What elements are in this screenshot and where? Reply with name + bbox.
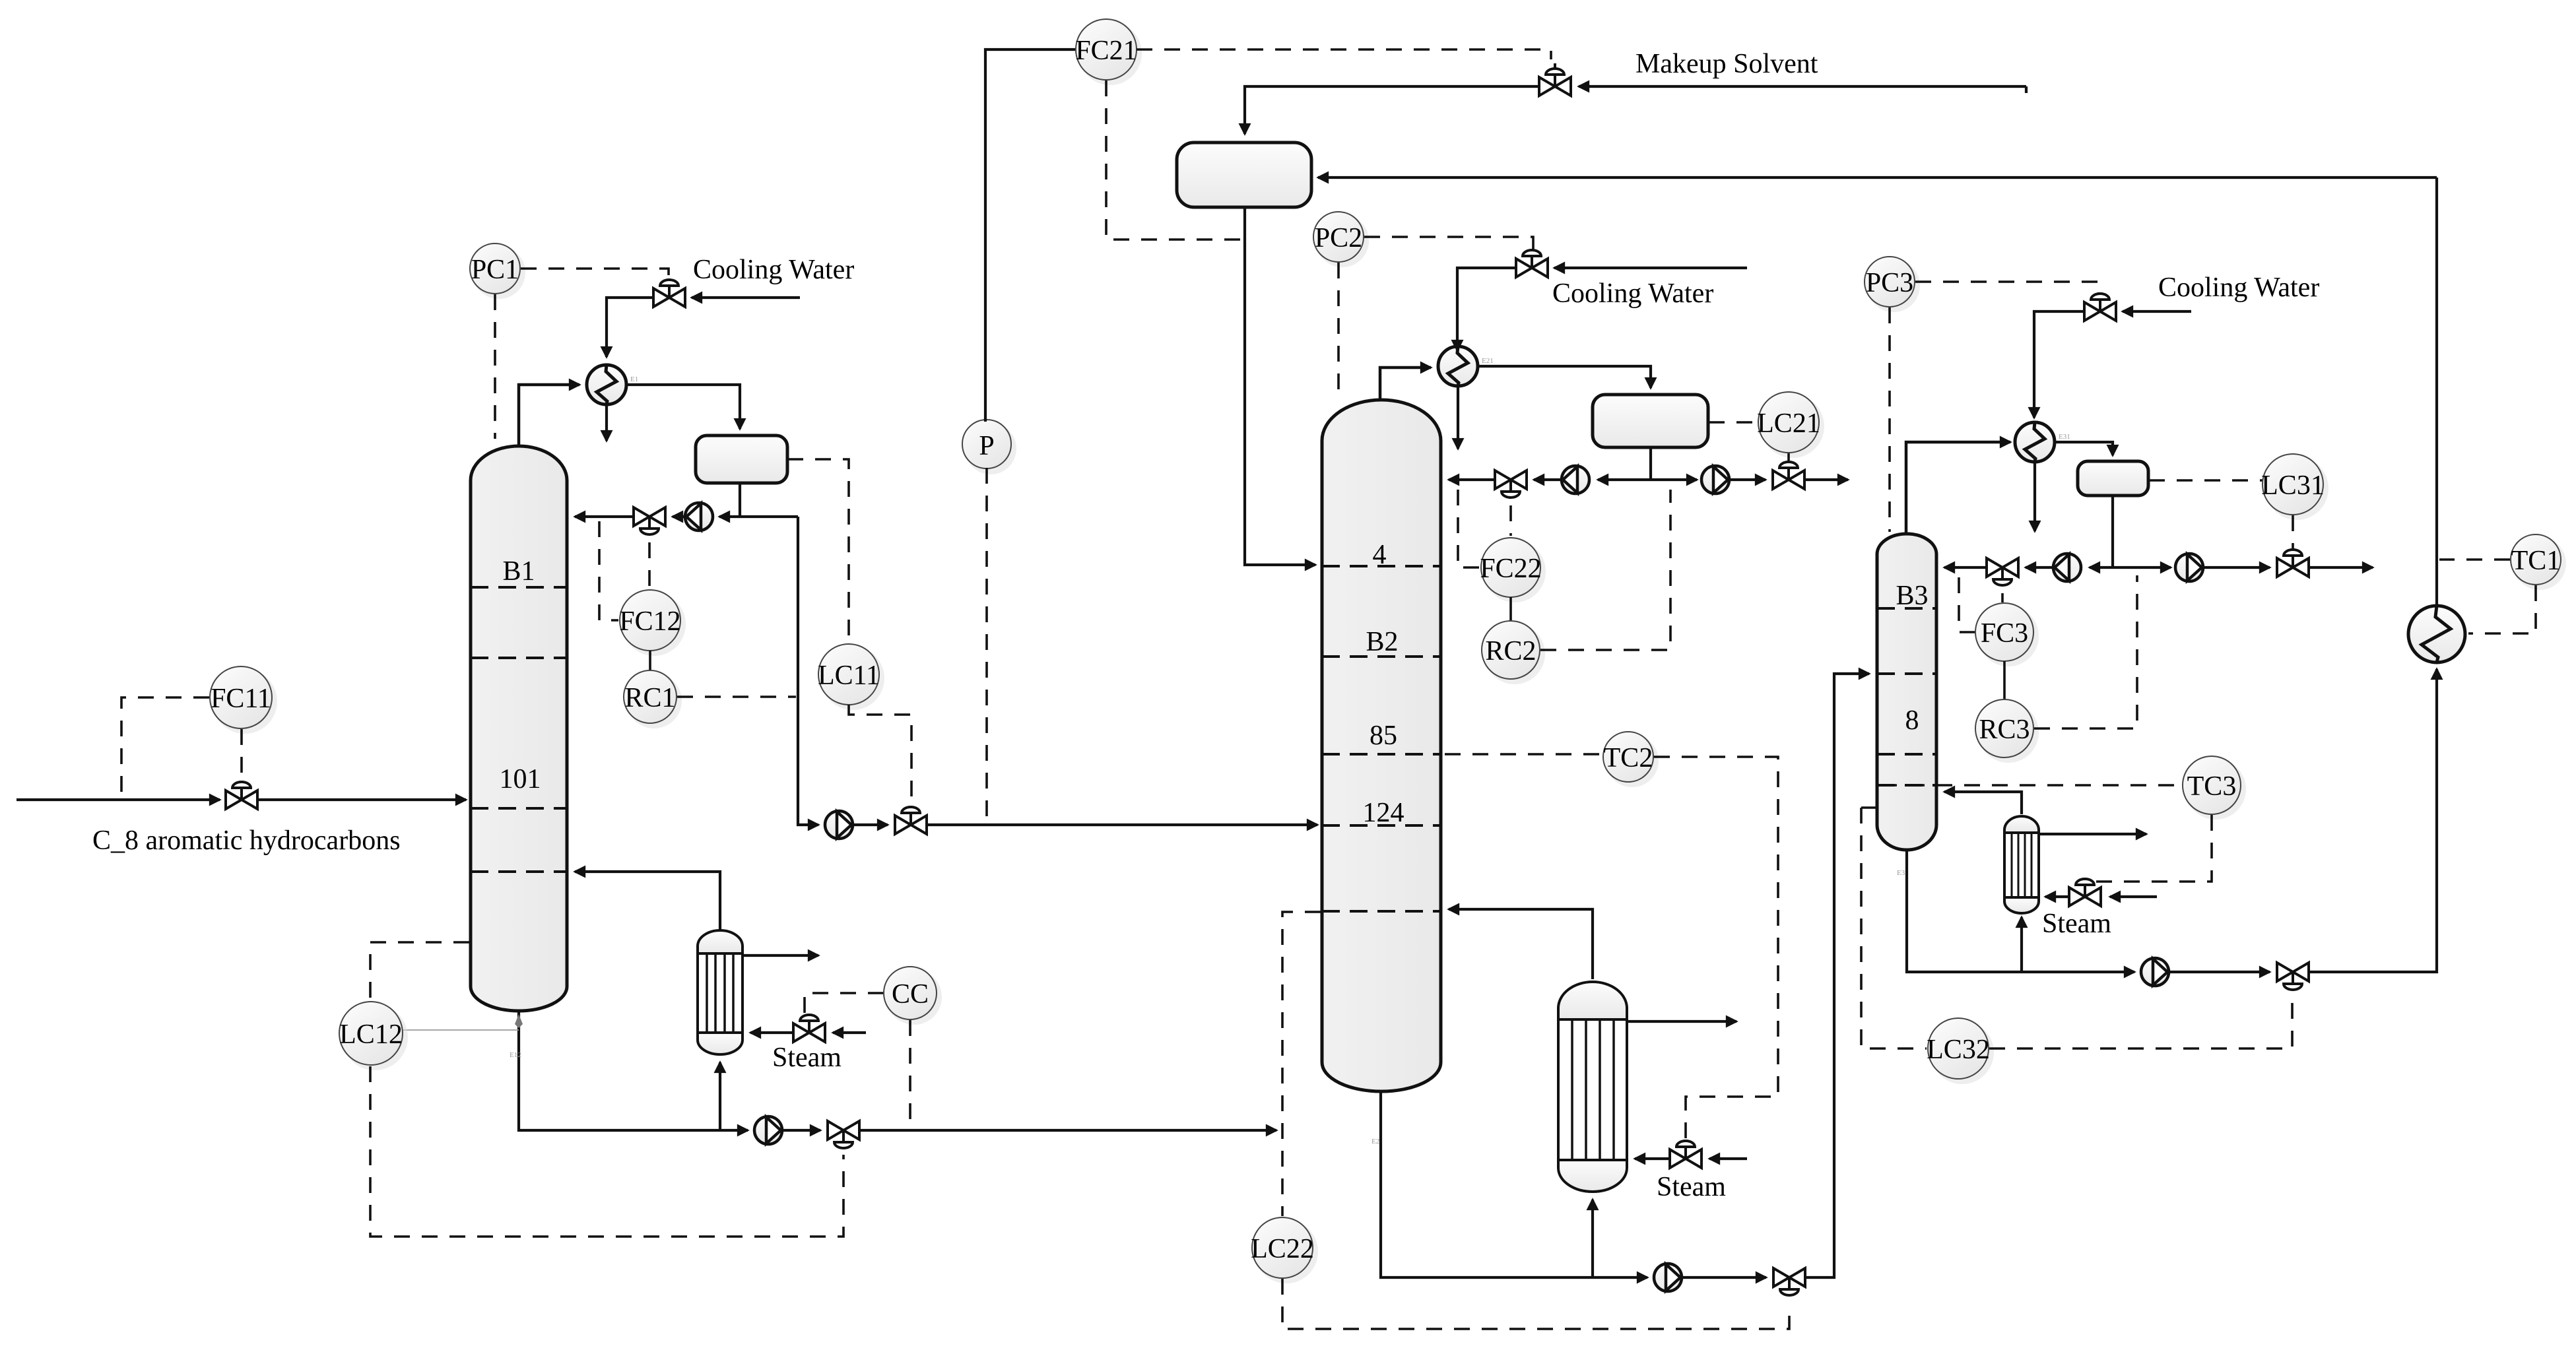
svg-text:RC1: RC1 xyxy=(624,683,675,713)
controller TC1 xyxy=(2513,537,2566,590)
tray line B3-4 xyxy=(1877,784,1936,787)
controller P xyxy=(965,423,1016,474)
wire LC32 column tap xyxy=(1861,806,1878,809)
svg-text:B3: B3 xyxy=(1896,581,1928,611)
reflux drum D1 xyxy=(696,435,787,483)
controller TC2 xyxy=(1606,734,1659,787)
wire condenser 1 to reflux drum xyxy=(627,385,740,429)
wire dashed LC32 tap down xyxy=(1861,808,1927,1048)
wire dashed LC21 to valve xyxy=(1787,453,1790,465)
wire dashed reflux FT tap to FC12 xyxy=(599,521,618,620)
wire reboiler 3 vapor return xyxy=(1944,792,2022,814)
tray line B3-2 (feed) xyxy=(1877,672,1936,675)
pump P1 reflux xyxy=(685,503,713,531)
wire dashed TC2 tap xyxy=(1445,753,1602,756)
wire cooling water to condenser 2 xyxy=(1457,268,1515,350)
condenser E1 xyxy=(587,365,638,404)
wire drum D3 outlet xyxy=(2111,496,2114,567)
reboiler E22 xyxy=(1558,982,1627,1192)
wire condenser 3 to reflux drum 3 xyxy=(2055,442,2113,455)
wire pump P5 to valve LC21 xyxy=(1729,478,1766,481)
svg-text:Steam: Steam xyxy=(772,1043,842,1073)
wire cooling water supply 3 xyxy=(2123,310,2191,313)
wire dashed LC22 column tap xyxy=(1282,912,1321,1216)
wire pump P1 to valve xyxy=(673,515,685,518)
wire dashed LC32 to bottoms valve 3 xyxy=(1989,999,2292,1048)
wire dashed PC1 to CW valve xyxy=(521,269,669,281)
valve cooling water 3 (PC3) xyxy=(2084,294,2116,321)
controller LC32 xyxy=(1931,1021,1994,1084)
wire pump P8 to valve LC31 xyxy=(2203,566,2270,569)
wire dashed CC to bottoms line xyxy=(909,1020,911,1128)
wire dashed FC11 tap xyxy=(121,697,209,796)
svg-text:P: P xyxy=(979,431,994,461)
wire reflux 3 to pump xyxy=(2090,566,2113,569)
pump P6 bottoms 2 xyxy=(1654,1264,1682,1291)
valve distillate 1 (LC11) xyxy=(895,807,927,834)
svg-text:Makeup Solvent: Makeup Solvent xyxy=(1635,49,1818,79)
tray line B2-2 xyxy=(1322,655,1441,658)
wire drum D2 outlet xyxy=(1649,447,1652,480)
wire condenser 1 vent arrow xyxy=(605,405,608,441)
svg-text:LC11: LC11 xyxy=(818,661,880,691)
wire pump P6 to valve xyxy=(1682,1276,1766,1279)
wire reboiler 2 feed branch xyxy=(1591,1200,1594,1277)
wire dashed TC3 tap xyxy=(1881,784,2182,787)
wire pump P4 to valve xyxy=(1534,478,1562,481)
svg-text:E1: E1 xyxy=(630,375,638,383)
wire dashed FC21 to drum outlet xyxy=(1106,81,1243,240)
wire drum outlet to B2 xyxy=(1245,207,1315,565)
svg-text:E2: E2 xyxy=(1371,1138,1379,1145)
wire dashed PC2 to CW valve 2 xyxy=(1364,237,1533,251)
pump P5 distillate 2 xyxy=(1701,466,1729,494)
wire bottoms 1 product xyxy=(861,1129,1276,1132)
svg-text:E21: E21 xyxy=(1482,357,1494,365)
svg-text:CC: CC xyxy=(892,979,929,1010)
wire dashed valve to FC3 xyxy=(2001,593,2004,602)
valve reflux 2 (FC22) xyxy=(1495,470,1527,498)
tray line B3-3 xyxy=(1877,753,1936,756)
feed drum vessel xyxy=(1177,143,1311,207)
controller LC22 xyxy=(1255,1220,1318,1283)
B3 SECTION xyxy=(1861,177,2566,1084)
wire dashed valve to FC22 xyxy=(1509,505,1512,536)
svg-text:FC3: FC3 xyxy=(1981,618,2028,649)
reflux drum D2 xyxy=(1593,395,1708,447)
wire steam 2 into reboiler xyxy=(1635,1157,1668,1160)
wire dashed RC3 to reflux junction xyxy=(2034,575,2137,728)
tray line B3-1 xyxy=(1877,607,1936,610)
valve bottoms 1 (LC12) xyxy=(828,1121,859,1148)
wire steam 3 into reboiler xyxy=(2045,895,2068,898)
wire dashed TC2 to steam valve 2 xyxy=(1654,757,1778,1141)
pump P9 bottoms 3 xyxy=(2141,958,2169,986)
wire reboiler 3 product xyxy=(2039,833,2146,835)
pump P4 reflux 2 xyxy=(1562,466,1589,494)
svg-text:FC21: FC21 xyxy=(1075,36,1137,66)
controller LC31 xyxy=(2265,457,2328,520)
valve cooling water 1 xyxy=(653,280,685,307)
wire B3 bottoms to heat exchanger xyxy=(2310,669,2437,972)
svg-text:4: 4 xyxy=(1373,540,1387,570)
controller RC2 xyxy=(1484,624,1545,684)
wire pump P7 to valve xyxy=(2026,566,2053,569)
tray line B2-5 (vapor return) xyxy=(1322,910,1441,913)
wire reflux 2 to pump xyxy=(1598,478,1651,481)
pump P7 reflux 3 xyxy=(2053,554,2081,581)
controller PC3 xyxy=(1867,259,1920,312)
controller CC xyxy=(886,969,942,1025)
wire heat exchanger to recycle line xyxy=(2435,177,2438,606)
svg-text:LC12: LC12 xyxy=(339,1019,403,1050)
svg-text:FC12: FC12 xyxy=(619,606,680,637)
svg-text:Steam: Steam xyxy=(2042,909,2111,939)
tray line B1-2 xyxy=(471,657,567,659)
wire reboiler 1 vapor return xyxy=(575,872,720,932)
controller TC3 xyxy=(2185,759,2246,820)
valve steam 3 (TC3) xyxy=(2069,879,2101,906)
wire condenser 2 vent arrow xyxy=(1457,387,1459,449)
wire distillate to B2 feed xyxy=(928,823,1317,826)
svg-text:8: 8 xyxy=(1905,705,1919,736)
wire dashed RC1 to distillate line xyxy=(677,695,796,698)
wire B2 bottoms riser to B3 xyxy=(1806,674,1869,1277)
tray line B1-4 (vapor return) xyxy=(471,870,567,873)
pump P2 distillate xyxy=(825,811,853,839)
wire column B3 top to condenser xyxy=(1906,442,2010,534)
svg-text:E31: E31 xyxy=(2059,433,2070,441)
tray line B2-1 (4) xyxy=(1322,565,1441,567)
svg-text:TC1: TC1 xyxy=(2511,546,2561,576)
valve steam 2 (TC2) xyxy=(1670,1141,1701,1168)
svg-text:85: 85 xyxy=(1370,721,1397,751)
wire condenser 3 vent arrow xyxy=(2033,463,2036,531)
wire dashed TC1 to heat exchanger xyxy=(2468,585,2536,633)
valve reflux 1 (FC12) xyxy=(634,507,665,534)
svg-text:C_8 aromatic hydrocarbons: C_8 aromatic hydrocarbons xyxy=(92,825,401,856)
valve steam 1 (CC) xyxy=(793,1015,825,1042)
svg-text:101: 101 xyxy=(500,764,541,794)
FEED DRUM SECTION xyxy=(1075,19,2437,565)
wire cooling water to condenser 3 xyxy=(2034,311,2083,418)
controller FC21 xyxy=(1078,22,1142,85)
wire dashed reflux FT tap to FC3 xyxy=(1959,577,1975,632)
tray line B2-4 (124 feed) xyxy=(1322,824,1441,827)
wire B1 bottoms outlet xyxy=(519,1012,748,1130)
svg-text:Cooling Water: Cooling Water xyxy=(693,255,854,285)
svg-text:Steam: Steam xyxy=(1657,1172,1726,1202)
wire column B2 top to condenser xyxy=(1380,368,1431,401)
wire solvent recycle return into drum xyxy=(1318,176,2437,179)
svg-text:RC2: RC2 xyxy=(1485,636,1536,666)
wire FC22 to RC2 xyxy=(1509,597,1512,621)
wire reflux junction to pump P8 xyxy=(2113,566,2171,569)
wire reboiler 2 vapor return xyxy=(1449,909,1593,979)
pump P8 distillate 3 xyxy=(2175,554,2203,581)
controller PC1 xyxy=(473,246,525,299)
wire column top to condenser xyxy=(519,385,579,446)
valve makeup solvent (FC21) xyxy=(1539,63,1571,96)
wire dashed PC3 to column top xyxy=(1888,307,1891,532)
wire reboiler 1 product xyxy=(743,954,818,957)
wire dashed LC11 to distillate valve xyxy=(849,705,911,806)
wire steam supply 2 xyxy=(1709,1157,1747,1160)
svg-text:PC1: PC1 xyxy=(471,255,519,285)
wire dashed PC2 to column top xyxy=(1337,263,1340,401)
svg-text:PC3: PC3 xyxy=(1866,268,1913,298)
svg-text:B1: B1 xyxy=(502,556,535,587)
B1 SECTION xyxy=(17,49,1317,1237)
wire dashed FC11 to valve xyxy=(240,729,243,783)
svg-text:LC31: LC31 xyxy=(2261,470,2325,501)
tray line B2-3 (85) xyxy=(1322,753,1441,756)
controller FC12 xyxy=(622,593,686,656)
wire dashed PC1 to column top xyxy=(494,294,496,439)
svg-text:TC2: TC2 xyxy=(1604,743,1653,773)
wire reflux into column B1 xyxy=(575,515,632,518)
wire LC12 level tap thin xyxy=(403,1029,519,1031)
controller LC12 xyxy=(342,1004,408,1070)
wire dashed drum D1 to LC11 xyxy=(787,459,849,643)
tray line B1-1 xyxy=(471,586,567,589)
svg-text:FC22: FC22 xyxy=(1480,554,1541,584)
wire reflux junction to pump P5 xyxy=(1651,478,1697,481)
wire steam 1 into reboiler xyxy=(750,1031,792,1034)
wire FC21 to P xyxy=(985,49,1075,422)
valve distillate 2 (LC21) xyxy=(1773,462,1804,489)
column B1 xyxy=(471,446,567,1011)
valve reflux 3 (FC3) xyxy=(1987,558,2018,585)
svg-text:LC32: LC32 xyxy=(1927,1035,1990,1065)
controller FC3 xyxy=(1978,606,2039,666)
wire dashed reflux FT tap to FC22 xyxy=(1458,490,1479,567)
wire reflux into column B2 xyxy=(1449,478,1494,481)
svg-text:124: 124 xyxy=(1363,798,1404,828)
wire makeup into drum xyxy=(1245,86,1538,134)
wire dashed TC1 to recycle line xyxy=(2439,558,2510,561)
controller FC22 xyxy=(1484,540,1546,602)
svg-text:E12: E12 xyxy=(510,1051,521,1059)
wire reboiler 1 feed branch xyxy=(719,1062,721,1130)
wire reboiler 2 product xyxy=(1627,1020,1736,1023)
wire dashed FC21 to makeup valve xyxy=(1137,49,1551,59)
wire steam supply 3 xyxy=(2110,895,2157,898)
wire FC3 to RC3 xyxy=(2003,661,2006,699)
condenser E31 xyxy=(2015,422,2070,462)
svg-text:PC2: PC2 xyxy=(1315,223,1362,253)
wire feed line into column xyxy=(259,798,466,801)
reflux drum D3 xyxy=(2078,461,2148,496)
wire pump P2 to valve xyxy=(853,823,888,826)
pump P3 bottoms xyxy=(754,1116,782,1144)
wire FC12 to RC1 xyxy=(649,651,651,671)
wire dashed valve to FC12 xyxy=(648,542,651,589)
svg-text:B2: B2 xyxy=(1366,627,1398,657)
node level tap arrow xyxy=(515,1014,523,1028)
wire cooling water to condenser 1 xyxy=(607,298,652,357)
wire dashed P to distillate line xyxy=(985,468,988,823)
valve bottoms 2 (LC22) xyxy=(1773,1268,1805,1295)
wire pump P3 to valve xyxy=(782,1129,820,1132)
controller RC1 xyxy=(626,673,682,728)
wire condenser 2 to reflux drum 2 xyxy=(1478,366,1651,388)
wire steam supply 1 xyxy=(833,1031,866,1034)
reboiler E3 xyxy=(2004,816,2039,913)
controller FC11 xyxy=(213,669,277,734)
wire reflux line to pump xyxy=(719,515,798,518)
controller PC2 xyxy=(1316,214,1369,267)
wire dashed PC3 to CW valve 3 xyxy=(1915,282,2099,295)
controller RC3 xyxy=(1978,702,2039,763)
svg-text:RC3: RC3 xyxy=(1979,715,2030,745)
wire makeup solvent supply xyxy=(1579,86,2026,93)
wire dashed LC12 column tap xyxy=(370,942,469,1000)
tray line B1-3 (feed tray 101) xyxy=(471,807,567,810)
wire distillate 2 product xyxy=(1806,478,1848,481)
wire dashed drum D2 to LC21 xyxy=(1709,421,1757,424)
valve cooling water 2 (PC2) xyxy=(1516,250,1548,277)
column B3 xyxy=(1877,534,1936,850)
wire cooling water supply 1 xyxy=(692,296,800,299)
svg-text:LC21: LC21 xyxy=(1757,408,1820,439)
wire drum D1 outlet xyxy=(739,483,741,517)
svg-text:LC22: LC22 xyxy=(1251,1234,1314,1264)
heat exchanger E0 (solvent cooler) xyxy=(2408,606,2465,662)
valve bottoms 3 (LC32) xyxy=(2277,963,2309,990)
wire distillate 3 product xyxy=(2310,566,2373,569)
svg-text:Cooling Water: Cooling Water xyxy=(1552,278,1713,309)
controller LC21 xyxy=(1761,395,1824,458)
wire distillate D1 down xyxy=(798,517,818,825)
svg-text:E3: E3 xyxy=(1897,869,1905,877)
wire reboiler 3 feed branch xyxy=(2020,917,2023,972)
wire dashed TC3 to steam valve 3 xyxy=(2096,815,2212,882)
wire dashed LC31 to valve xyxy=(2292,515,2294,553)
wire feed line C8 xyxy=(17,798,220,801)
svg-text:TC3: TC3 xyxy=(2187,771,2237,802)
wire dashed LC22 to bottoms valve 2 xyxy=(1282,1279,1789,1329)
valve distillate 3 (LC31) xyxy=(2277,550,2309,577)
controller LC11 xyxy=(821,647,884,710)
wire reflux into column B3 xyxy=(1944,566,1985,569)
wire B2 bottoms outlet xyxy=(1381,1093,1647,1277)
wire dashed RC2 to reflux junction xyxy=(1540,490,1670,650)
wire B3 bottoms outlet xyxy=(1907,851,2134,972)
valve feed FC11 xyxy=(226,782,257,809)
reboiler E12 xyxy=(698,930,743,1054)
svg-text:Cooling Water: Cooling Water xyxy=(2158,273,2319,303)
svg-text:FC11: FC11 xyxy=(211,684,271,714)
wire pump P9 to valve xyxy=(2169,971,2270,973)
wire cooling water supply 2 xyxy=(1554,267,1747,269)
B2 SECTION xyxy=(1251,212,1869,1329)
column B2 xyxy=(1322,400,1441,1091)
wire dashed CC to steam valve xyxy=(805,993,884,1014)
wire dashed drum D3 to LC31 xyxy=(2149,479,2262,482)
condenser E21 xyxy=(1438,346,1494,386)
wire dashed LC12 to bottoms valve xyxy=(370,1066,843,1237)
